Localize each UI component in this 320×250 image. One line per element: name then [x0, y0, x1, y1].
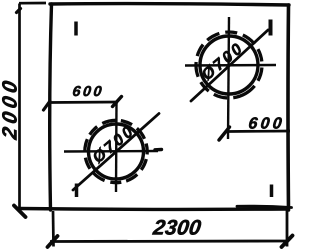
hole 2 circle solid: [200, 36, 258, 94]
hole 2 (right) centerline vertical: [228, 17, 229, 139]
arrow left of 2300: [48, 236, 58, 247]
tick top of 2000: [17, 9, 21, 13]
centerline end stub: [155, 148, 162, 152]
dimension line 600 (right hole): [228, 130, 290, 133]
mark bottom-right: [270, 185, 274, 198]
extension line bottom-right: [286, 210, 289, 247]
arrow right of 600: [113, 97, 122, 107]
plate left edge: [50, 4, 52, 210]
label 600 left: [73, 86, 102, 96]
label dia 700 right: [200, 42, 243, 81]
mark bottom-left: [75, 184, 79, 198]
label 2300: [152, 220, 202, 235]
plate top edge: [50, 4, 289, 5]
hole 1 circle solid: [89, 124, 144, 179]
arrow left of right 600: [219, 127, 230, 140]
dimension line 600 (left hole): [49, 101, 118, 104]
mark top-right: [269, 20, 273, 36]
label 2000: [2, 80, 17, 140]
hole 2 centerline horizontal: [185, 64, 276, 67]
dimension line 2000 (left vertical): [18, 4, 21, 210]
hole 1 centerline horizontal: [64, 150, 158, 153]
extension line bottom-left: [52, 211, 55, 247]
dimension line 2300 (bottom): [50, 240, 289, 243]
hole 2 circle dashed: [184, 20, 274, 110]
mark top-left: [74, 22, 78, 36]
tick left of 600: [44, 101, 51, 110]
plate right edge: [286, 5, 290, 210]
bottom edge double stroke right part: [237, 206, 292, 207]
label 600 right: [249, 117, 282, 128]
hole 1 diameter diagonal: [73, 114, 159, 191]
hole 2 diameter diagonal: [191, 30, 268, 101]
dimension hook top: [19, 2, 46, 5]
plate bottom edge (extended left to dimension line): [19, 207, 288, 211]
label dia 700 left: [91, 125, 134, 164]
hole 1 (left) centerline vertical: [115, 101, 118, 192]
hole 1 circle dashed: [78, 114, 154, 190]
arrow right of 2300: [282, 236, 293, 248]
arrow bottom of 2000: [14, 206, 26, 218]
